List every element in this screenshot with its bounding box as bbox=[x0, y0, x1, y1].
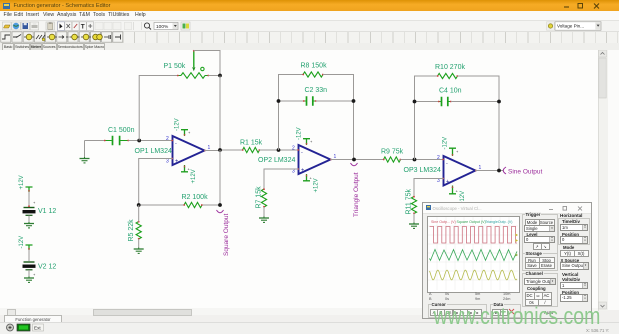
capacitor C4 bbox=[438, 97, 452, 107]
wire C1 left bbox=[95, 140, 105, 142]
power pin -12V OP3 bbox=[449, 148, 459, 156]
label C2 33n bbox=[305, 87, 328, 94]
wire rail P1 to OP1 output bbox=[219, 76, 221, 151]
Vertical group bbox=[562, 272, 578, 277]
label C4 10n bbox=[439, 88, 462, 95]
label R5 22k bbox=[128, 219, 135, 242]
resistor R10 bbox=[437, 73, 458, 78]
label R8 150k bbox=[301, 63, 328, 70]
label R2 100k bbox=[182, 194, 209, 201]
axis rows bbox=[429, 292, 432, 296]
wire R9 to OP3 pin2 bbox=[401, 159, 444, 161]
Horizontal group bbox=[560, 213, 582, 218]
pin 1 OP3 bbox=[479, 165, 482, 171]
op-amp OP2 bbox=[297, 145, 331, 174]
label OP1 LM324 bbox=[135, 148, 172, 155]
wire OP3 output bbox=[476, 170, 504, 172]
resistor R11 bbox=[411, 196, 416, 214]
power pin +12V OP1 bbox=[181, 165, 191, 172]
svg-text:www.cntronics.com: www.cntronics.com bbox=[433, 302, 601, 329]
resistor R9 bbox=[383, 157, 401, 162]
label -12V OP2 bbox=[297, 127, 303, 140]
power pin +12V OP2 bbox=[303, 174, 313, 181]
Data group bbox=[490, 304, 521, 318]
ground R5 bbox=[134, 248, 144, 254]
node OP2 output junction bbox=[352, 158, 356, 162]
resistor R7 bbox=[261, 188, 266, 207]
op-amp OP3 bbox=[442, 156, 476, 186]
wire OP2 output bbox=[331, 159, 384, 161]
node R1/C2 junction bbox=[277, 148, 281, 152]
wire R1 to OP2 pin2 bbox=[260, 149, 299, 151]
ground (C1 input) bbox=[80, 157, 90, 163]
potentiometer P1 bbox=[177, 50, 209, 78]
wire C2 row left bbox=[279, 100, 304, 102]
pin 1 OP2 bbox=[334, 154, 337, 160]
wire C1 ground leg bbox=[85, 141, 96, 158]
pin 3 OP2 bbox=[292, 169, 295, 175]
wire P1 left vertical bbox=[139, 76, 177, 141]
output label Triangle Output bbox=[351, 163, 361, 217]
node C2 left bbox=[277, 99, 281, 103]
label R11 75k bbox=[406, 188, 413, 214]
node P1 right junction bbox=[218, 74, 222, 78]
wire OP1 output bbox=[205, 149, 243, 152]
wire C4 row right bbox=[451, 101, 499, 103]
Trigger group bbox=[522, 214, 558, 254]
node R2 right bbox=[218, 203, 222, 207]
label +12V OP2 bbox=[314, 178, 320, 192]
pin 2 OP3 bbox=[437, 155, 440, 161]
power pin -12V V2 bbox=[26, 245, 33, 250]
label +12V V1 bbox=[19, 175, 25, 189]
wire R2 row bbox=[139, 150, 220, 205]
wire OP3 pin3 bbox=[414, 179, 444, 197]
pin 3 OP1 bbox=[166, 159, 169, 165]
ground V2 bbox=[24, 277, 34, 283]
power pin +12V V1 bbox=[26, 187, 33, 192]
node OP3 output junction bbox=[497, 169, 501, 173]
power pin -12V OP1 bbox=[181, 130, 191, 137]
pin 2 OP2 bbox=[292, 146, 295, 152]
wire C2 left vertical bbox=[279, 75, 304, 151]
Channel group bbox=[522, 273, 558, 308]
wire P1 right to rail bbox=[209, 75, 221, 77]
wire V2 top bbox=[28, 250, 30, 261]
Cursor group bbox=[428, 304, 487, 318]
label +12V OP3 bbox=[460, 191, 466, 205]
label C1 500n bbox=[108, 127, 135, 134]
label V1 12 bbox=[38, 208, 56, 215]
node R2 left bbox=[137, 203, 141, 207]
wire V2 bottom bbox=[28, 270, 30, 277]
label -12V OP1 bbox=[175, 118, 181, 131]
node C4 left bbox=[413, 100, 417, 104]
node C4 right bbox=[497, 100, 501, 104]
output label Sine Output bbox=[503, 167, 542, 176]
wire C4 left vertical bbox=[415, 76, 438, 160]
label -12V V2 bbox=[19, 236, 25, 249]
battery V2 bbox=[23, 262, 37, 277]
node junction C1/P1 bbox=[137, 139, 141, 143]
label OP3 LM324 bbox=[404, 167, 441, 174]
wire R7 to ground bbox=[263, 207, 265, 217]
wire V1 bottom bbox=[28, 216, 30, 223]
op-amp OP1 bbox=[171, 136, 206, 165]
resistor R5 bbox=[136, 221, 141, 240]
wire OP2 pin3 bbox=[264, 169, 299, 189]
ground R7 bbox=[259, 217, 269, 223]
wire P1 wiper to right rail bbox=[194, 51, 220, 76]
wire C4 row left bbox=[415, 101, 439, 103]
pin 3 OP3 bbox=[437, 178, 440, 184]
label R10 270k bbox=[435, 64, 465, 71]
pin 2 OP1 bbox=[166, 136, 169, 142]
label OP2 LM324 bbox=[258, 157, 295, 164]
resistor R2 bbox=[183, 202, 202, 207]
wire OP1 pin3 bbox=[139, 159, 173, 206]
power pin -12V OP2 bbox=[303, 139, 313, 146]
label -12V OP3 bbox=[443, 137, 449, 150]
label R7 15k bbox=[256, 186, 263, 209]
resistor R1 bbox=[242, 147, 260, 152]
battery V1 bbox=[23, 205, 36, 215]
pin 1 OP1 bbox=[208, 145, 211, 151]
wire R8 right bbox=[323, 75, 354, 160]
ground R11 bbox=[409, 223, 419, 229]
wire R10 right bbox=[458, 76, 500, 171]
label V2 12 bbox=[38, 264, 56, 271]
label +12V OP1 bbox=[191, 169, 197, 183]
power pin +12V OP3 bbox=[449, 186, 459, 194]
resistor R8 bbox=[302, 72, 323, 77]
wire R5 vertical bbox=[138, 205, 140, 248]
wire V1 top bbox=[29, 192, 36, 206]
label R9 75k bbox=[381, 149, 404, 156]
wire C1 to OP1 pin2 bbox=[129, 140, 173, 142]
wire C2 row right bbox=[316, 100, 354, 102]
capacitor C2 bbox=[303, 96, 317, 106]
node OP1 output bbox=[218, 148, 222, 152]
label R1 15k bbox=[240, 140, 263, 147]
ground V1 bbox=[24, 222, 34, 228]
Storage group bbox=[522, 253, 558, 271]
node R9/C4 junction bbox=[413, 158, 417, 162]
label P1 50k bbox=[164, 63, 186, 70]
node C2 right bbox=[352, 99, 356, 103]
wire R11 to ground bbox=[413, 214, 415, 223]
capacitor C1 bbox=[104, 136, 129, 146]
output label Square Output bbox=[217, 210, 231, 256]
waveform display bbox=[427, 216, 520, 293]
